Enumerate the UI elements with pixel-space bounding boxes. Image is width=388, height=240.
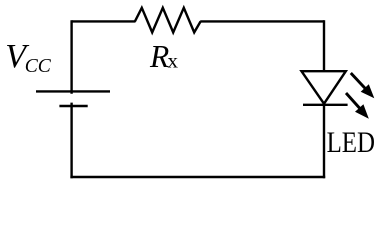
svg-text:LED: LED bbox=[327, 127, 375, 159]
wire: bottom segment bbox=[70, 176, 325, 178]
LED triangle (anode) bbox=[302, 71, 346, 104]
svg-text:x: x bbox=[168, 49, 179, 73]
LED emission arrow 2 shaft bbox=[346, 93, 361, 110]
wire: right vertical lower (LED cathode lead) bbox=[323, 105, 325, 178]
wire: top-right segment bbox=[200, 20, 324, 22]
LED emission arrow 1 shaft bbox=[351, 73, 366, 90]
LED emission arrow 1 head bbox=[361, 84, 375, 98]
LED cathode bar bbox=[303, 104, 348, 106]
svg-text:CC: CC bbox=[25, 56, 52, 77]
svg-text:R: R bbox=[149, 39, 169, 74]
wire: left vertical lower (Vcc - lead) bbox=[70, 103, 72, 179]
battery Vcc: long positive plate bbox=[36, 90, 110, 92]
wire: top-left segment bbox=[72, 20, 136, 22]
wire: right vertical upper (LED anode lead) bbox=[323, 20, 325, 74]
resistor Rx zigzag bbox=[135, 8, 201, 33]
LED emission arrow 2 head bbox=[355, 104, 369, 119]
battery Vcc: short negative plate bbox=[59, 105, 87, 107]
wire: left vertical upper (Vcc + lead) bbox=[70, 20, 72, 94]
